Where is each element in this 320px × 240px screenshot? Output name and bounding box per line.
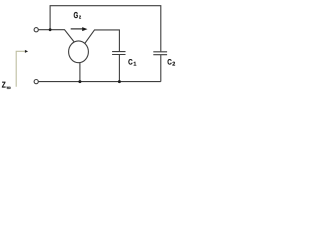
svg-text:G: G	[74, 10, 79, 20]
svg-text:wo: wo	[6, 85, 11, 90]
svg-text:Z: Z	[2, 80, 6, 90]
svg-text:z: z	[79, 14, 82, 20]
svg-text:2: 2	[172, 62, 175, 68]
svg-text:C: C	[128, 57, 133, 66]
svg-text:1: 1	[133, 62, 136, 68]
